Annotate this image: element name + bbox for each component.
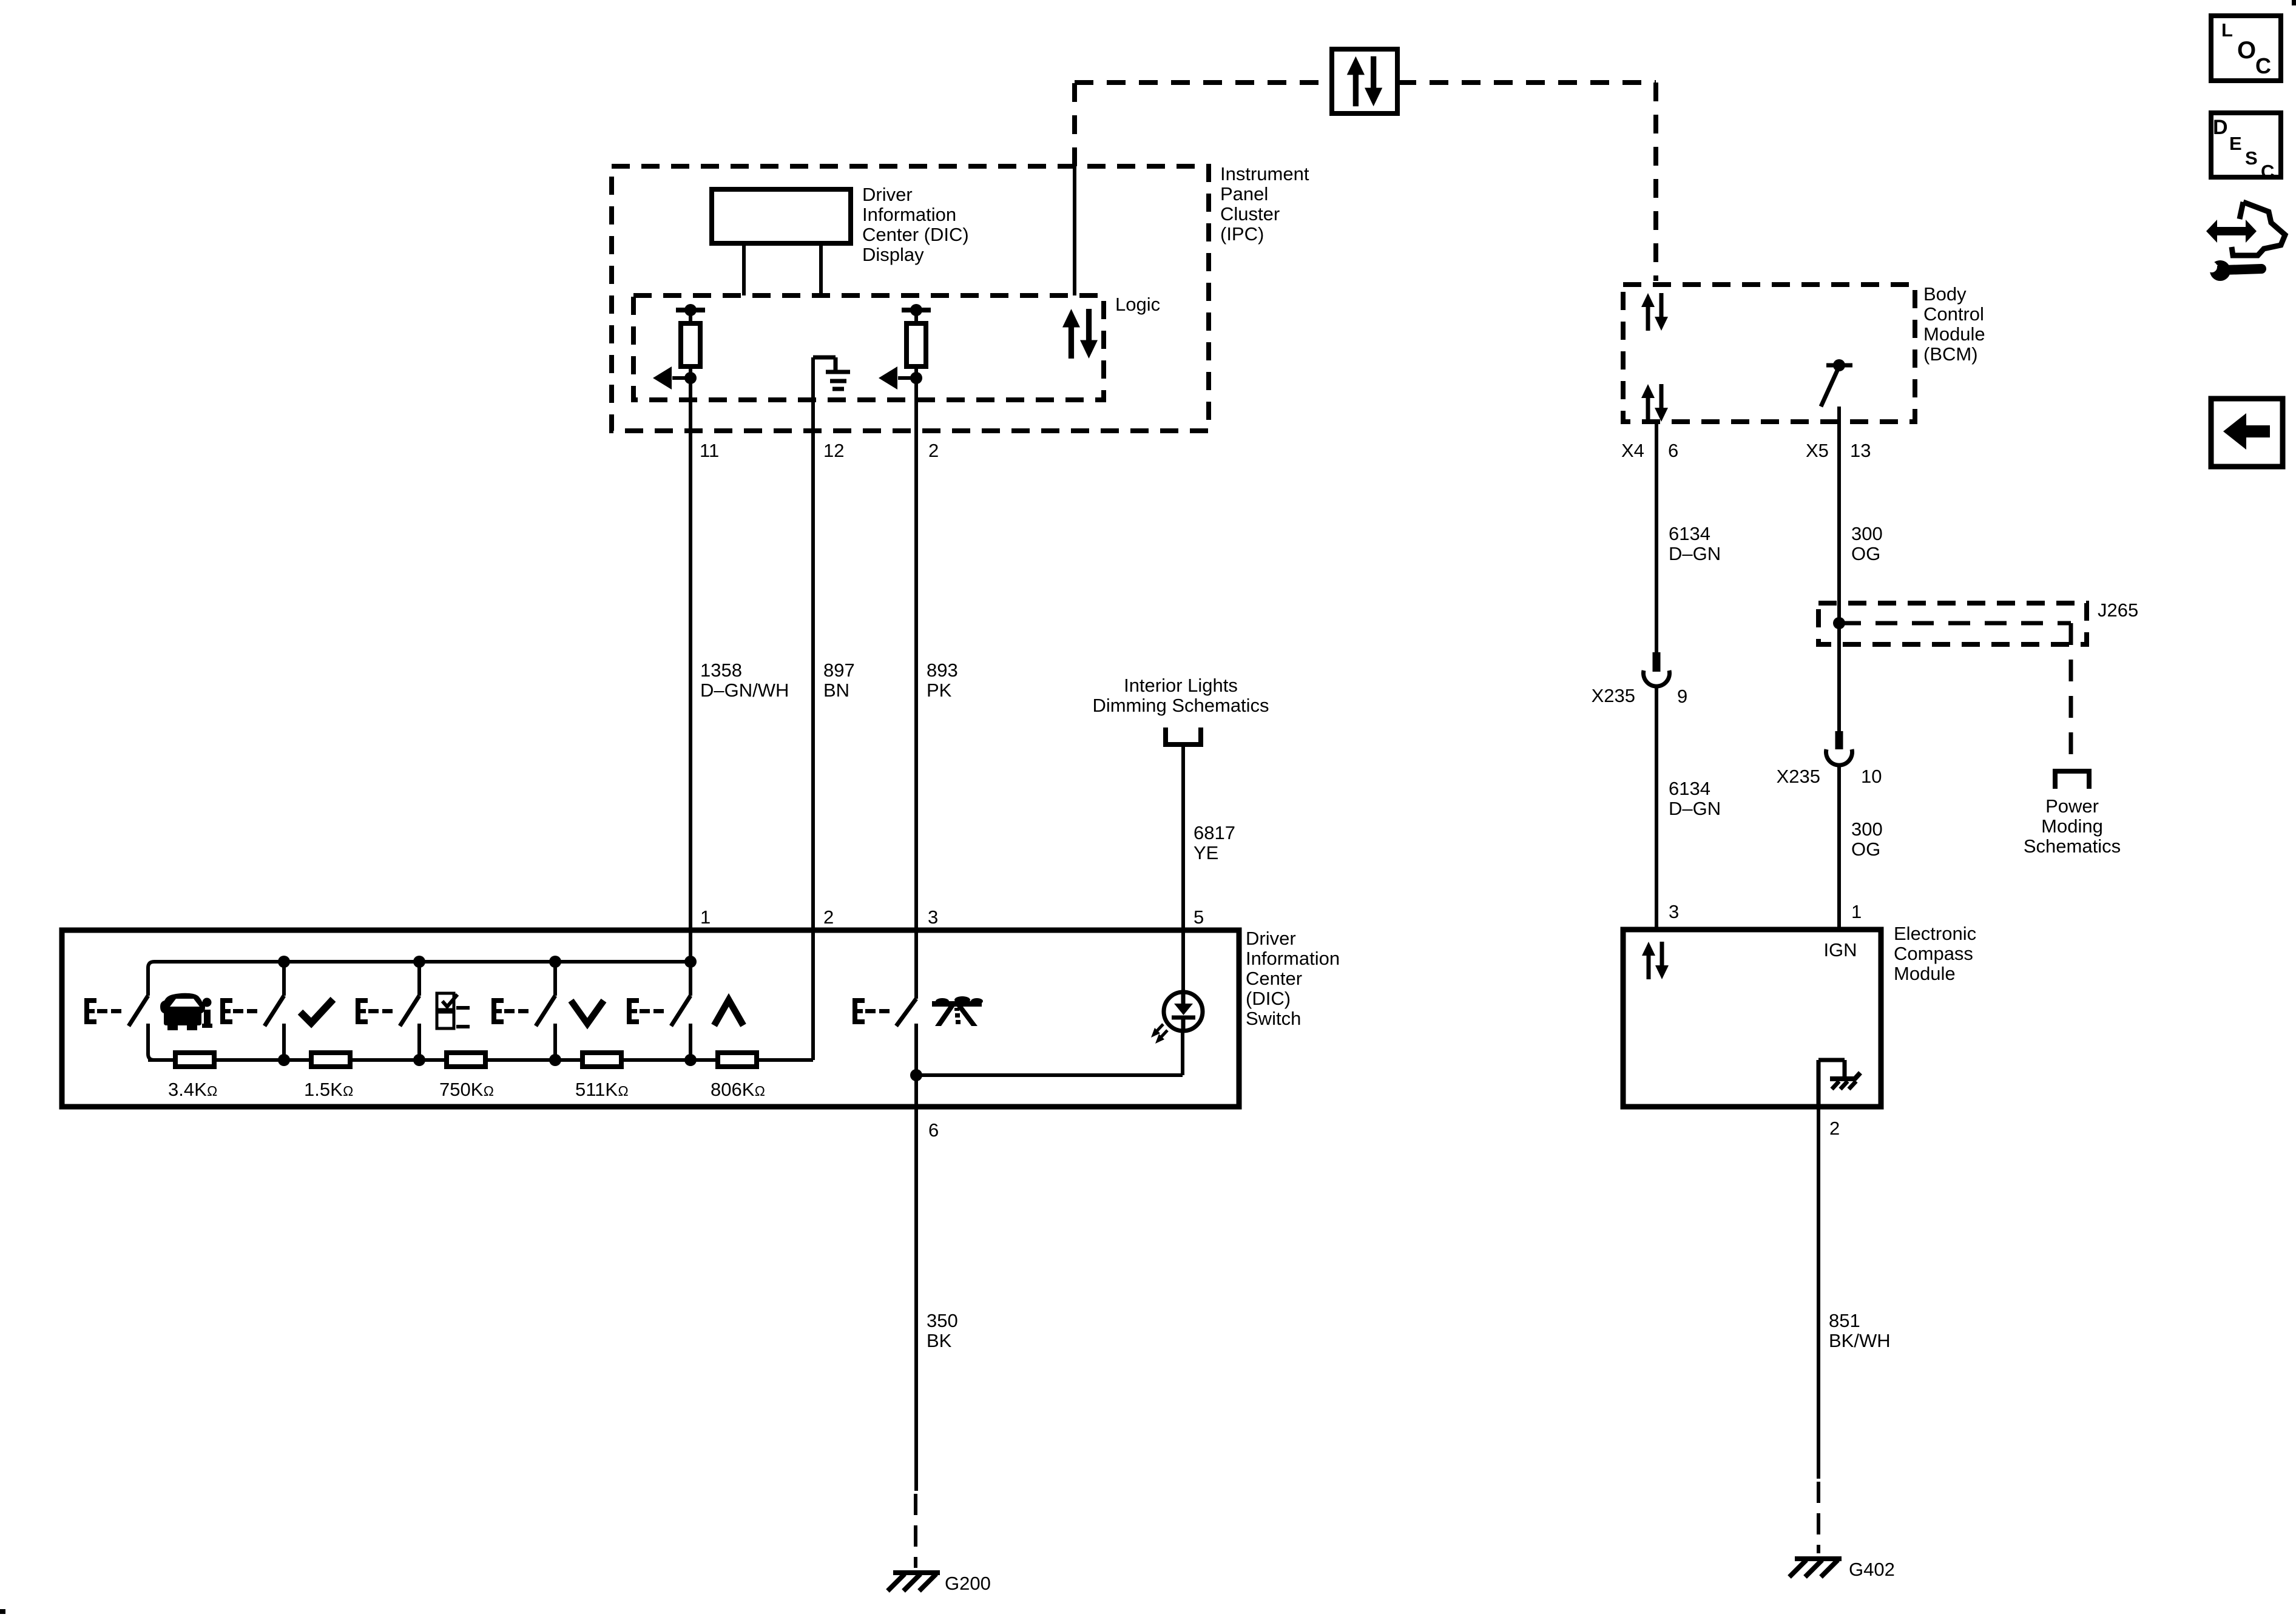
serial data arrows (Logic) [1062,309,1098,359]
svg-text:300: 300 [1851,819,1883,840]
label: wire 897 BN [823,660,855,701]
wire: J265 branch dashed horizontal [1839,621,2071,626]
label: Instrument Panel Cluster (IPC) [1220,163,1309,245]
node: chain junction 2 [413,1054,425,1066]
label: wire 1358 D-GN/WH [700,660,789,701]
ground G200 [888,1573,940,1591]
wire: chain segment [284,1058,311,1062]
LED (switch illumination) [1164,992,1203,1031]
BCM internal switch [1821,359,1852,422]
Body Control Module (BCM) dashed box [1623,285,1915,422]
svg-text:300: 300 [1851,523,1883,544]
svg-text:Compass: Compass [1894,943,1973,964]
svg-text:Driver: Driver [1246,928,1296,949]
label: Driver Information Center (DIC) Switch [1246,928,1340,1029]
wire 897 BN (pin 12 to switch pin 2) [811,357,815,1060]
node: splice J265 [1833,617,1845,629]
svg-text:Center: Center [1246,968,1302,989]
svg-text:6134: 6134 [1669,523,1710,544]
svg-text:2: 2 [1829,1118,1840,1139]
svg-text:OG: OG [1851,839,1880,860]
wire 6817 YE (dimming to switch pin 5) [1181,744,1185,993]
svg-text:BK: BK [927,1330,952,1351]
compass module internal ground wire [1818,1060,1845,1107]
label: wire 300 OG (upper) [1851,523,1883,564]
resistor R2 1.5K [311,1053,350,1067]
svg-text:(IPC): (IPC) [1220,223,1264,245]
Electronic Compass Module box [1623,930,1881,1107]
svg-text:Power: Power [2045,795,2099,817]
label: wire 851 BK/WH [1829,1310,1891,1351]
resistor R1 3.4K [175,1053,214,1067]
resistor pull-up top bar [676,308,705,312]
node: chain junction 1 [278,1054,290,1066]
svg-text:Control: Control [1923,303,1984,325]
node: pull-up top [910,304,922,316]
svg-text:L: L [2221,19,2233,41]
svg-text:E: E [2229,133,2242,154]
node: resistor output [684,372,697,384]
svg-text:1: 1 [700,906,711,928]
switch S3 (menu) [356,962,419,1060]
nav box LOC [2211,16,2281,81]
ground G402 [1789,1559,1842,1577]
svg-text:Display: Display [862,244,924,265]
svg-text:Logic: Logic [1115,294,1160,315]
wire: LED return horizontal [916,1073,1183,1077]
svg-text:Cluster: Cluster [1220,203,1280,224]
svg-text:6134: 6134 [1669,778,1710,799]
wire: dashed serial data bus right vertical [1653,83,1658,281]
wire: switch top bus [148,962,690,996]
switch S1 (trip/info) [84,996,148,1026]
off-page bracket (interior lights dimming) [1166,727,1201,744]
page mark top right [2292,0,2296,5]
label: wire 6817 YE [1194,822,1235,863]
signal arrow (to logic) [672,376,690,380]
label: Body Control Module (BCM) [1923,283,1985,365]
svg-text:J265: J265 [2098,599,2138,621]
node: bus junction 2 [413,956,425,968]
LED light arrows [1151,1024,1167,1044]
node: pull-up top [684,304,697,316]
wire 851 BK/WH [1817,1107,1820,1479]
wire: chain segment [555,1058,582,1062]
svg-text:OG: OG [1851,543,1880,564]
page mark [0,1609,5,1614]
resistor R4 511K [582,1053,621,1067]
Logic dashed box [633,295,1104,400]
connector X235 pin 10 [1826,731,1852,765]
svg-text:1358: 1358 [700,660,742,681]
signal arrow (to logic) [898,376,916,380]
label: Interior Lights Dimming Schematics [1092,675,1269,716]
icon: up chevron (S5) [714,1000,743,1025]
svg-text:G200: G200 [945,1573,991,1594]
icon: checkmark (S2) [300,999,333,1023]
resistor R5 806K [718,1053,757,1067]
wire: serial data vertical inside IPC [1073,166,1076,295]
wire: chain segment [350,1058,419,1062]
label: wire 6134 D-GN (lower) [1669,778,1721,819]
svg-text:893: 893 [927,660,958,681]
wire 1358 D-GN/WH (pin 11 to switch pin 1) [689,378,692,962]
svg-text:Panel: Panel [1220,183,1268,204]
svg-text:11: 11 [700,440,719,461]
svg-text:Driver: Driver [862,184,913,205]
svg-text:BK/WH: BK/WH [1829,1330,1891,1351]
svg-text:6: 6 [928,1119,939,1141]
svg-text:6: 6 [1668,440,1678,461]
svg-text:IGN: IGN [1823,939,1857,960]
svg-text:C: C [2255,53,2271,78]
svg-text:X235: X235 [1777,766,1820,787]
svg-text:S: S [2245,147,2258,169]
wire: J265 branch dashed vertical [2069,623,2073,768]
svg-text:Module: Module [1923,323,1985,345]
svg-text:851: 851 [1829,1310,1860,1331]
wire: dashed serial data bus horizontal right [1397,80,1656,85]
svg-text:X5: X5 [1806,440,1829,461]
icon: car with info (S1) [160,993,212,1030]
svg-text:D–GN/WH: D–GN/WH [700,680,789,701]
node: bus junction 4 [684,956,697,968]
connector X235 pin 9 [1644,652,1670,686]
wire: display stub right [819,243,823,295]
DIC Display box [712,189,851,243]
wire: dashed serial data bus horizontal left [1075,80,1332,85]
wire: chain segment [690,1058,718,1062]
switch S2 (set/reset) [220,962,284,1060]
svg-text:13: 13 [1850,440,1871,461]
wire: chain segment [419,1058,447,1062]
svg-text:(BCM): (BCM) [1923,343,1978,365]
svg-text:Body: Body [1923,283,1967,305]
icon: down chevron (S4) [571,1001,604,1024]
splice J265 dashed box [1818,603,2087,644]
svg-text:Dimming Schematics: Dimming Schematics [1092,695,1269,716]
svg-text:6817: 6817 [1194,822,1235,843]
serial data arrows (BCM lower) [1641,384,1668,422]
wire 6134 D-GN (X235 to compass module) [1655,686,1658,930]
svg-text:Switch: Switch [1246,1008,1301,1029]
svg-text:Information: Information [862,204,956,225]
wire 6134 D-GN (BCM X4-6 down) [1655,422,1658,654]
svg-text:Electronic: Electronic [1894,923,1976,944]
svg-text:D: D [2213,116,2228,139]
svg-text:C: C [2261,161,2274,182]
switch S5 (up) [627,962,690,1060]
svg-text:Information: Information [1246,948,1340,969]
svg-text:Schematics: Schematics [2024,836,2121,857]
wire: chain segment [485,1058,555,1062]
svg-text:X4: X4 [1621,440,1644,461]
svg-text:Module: Module [1894,963,1956,984]
svg-text:G402: G402 [1849,1559,1895,1580]
node: bus junction 3 [549,956,561,968]
svg-text:3: 3 [1669,901,1679,922]
svg-text:YE: YE [1194,842,1218,863]
label: wire 6134 D-GN (upper) [1669,523,1721,564]
node: bus junction 1 [278,956,290,968]
node: chain junction 4 [684,1054,697,1066]
ground symbol (compass module internal) [1830,1073,1860,1089]
nav icon connector repair (arrow + wrench) [2204,202,2285,281]
svg-text:(DIC): (DIC) [1246,988,1291,1009]
switch S6 (display dimming) [853,998,916,1026]
svg-text:10: 10 [1861,766,1882,787]
svg-text:5: 5 [1194,906,1204,928]
wire 851 BK/WH dashed to ground [1817,1482,1820,1553]
node: chain junction 3 [549,1054,561,1066]
wire: chain segment [621,1058,690,1062]
wire: chain segment [214,1058,284,1062]
svg-text:2: 2 [823,906,834,928]
resistor pull-up top bar [902,308,931,312]
svg-text:1: 1 [1851,901,1862,922]
resistor (IPC internal) [907,323,926,366]
svg-text:D–GN: D–GN [1669,543,1721,564]
label: Driver Information Center (DIC) Display [862,184,969,265]
Instrument Panel Cluster (IPC) dashed box [612,166,1209,431]
node: S6 / LED return junction [910,1069,922,1081]
svg-text:Moding: Moding [2041,815,2103,837]
wire 300 OG (X235 to compass module) [1837,765,1841,930]
serial data link connector box [1332,49,1397,113]
icon: road dimming (S6) [932,996,983,1026]
wire: resistor chain left drop [148,1024,175,1060]
svg-text:O: O [2237,37,2256,64]
svg-text:PK: PK [927,680,952,701]
svg-text:2: 2 [928,440,939,461]
serial data arrows (top box) [1347,56,1383,106]
svg-text:BN: BN [823,680,849,701]
resistor (IPC internal) [681,323,700,366]
serial data arrows (compass module) [1642,942,1669,979]
svg-text:Center (DIC): Center (DIC) [862,224,969,245]
label: wire 350 BK [927,1310,958,1351]
wire: chain segment [148,1058,175,1062]
label: Power Moding Schematics [2024,795,2121,857]
wire: chain segment [757,1058,813,1062]
svg-text:Instrument: Instrument [1220,163,1309,184]
icon: checklist (S3) [437,993,470,1028]
wire 300 OG (BCM X5-13 down) [1837,408,1841,731]
svg-text:9: 9 [1677,686,1687,707]
svg-text:X235: X235 [1592,685,1635,706]
wire 893 PK (pin 2 to switch pin 3) [914,378,918,999]
nav box DESC [2211,113,2281,182]
label: wire 300 OG (lower) [1851,819,1883,860]
svg-text:350: 350 [927,1310,958,1331]
wire: S6 lower to junction and pin 6 [914,1024,918,1491]
label: wire 893 PK [927,660,958,701]
svg-text:Interior Lights: Interior Lights [1124,675,1238,696]
svg-text:D–GN: D–GN [1669,798,1721,819]
IPC internal ground: riser [813,356,836,360]
svg-text:3: 3 [928,906,938,928]
nav box back-arrow [2211,399,2283,467]
label: Electronic Compass Module [1894,923,1976,984]
resistor R3 750K [447,1053,485,1067]
svg-text:897: 897 [823,660,855,681]
wire: dashed serial data bus left vertical [1072,83,1077,166]
ground symbol (IPC logic) [826,372,850,389]
Driver Information Center (DIC) Switch box [62,930,1239,1107]
switch S4 (down) [491,962,555,1060]
svg-text:12: 12 [823,440,844,461]
wire: LED cathode drop [1181,1031,1184,1075]
wire 350 BK dashed to ground [914,1494,917,1568]
off-page bracket (power moding) [2055,771,2089,789]
wire: display stub left [742,243,746,295]
node: resistor output [910,372,922,384]
serial data arrows (BCM upper) [1641,293,1668,331]
